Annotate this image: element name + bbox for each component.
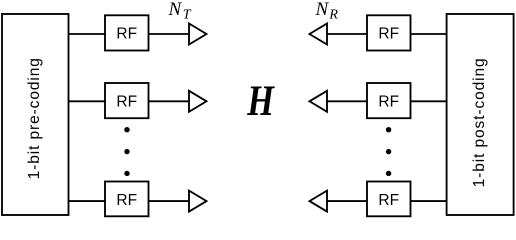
svg-text:H: H (246, 77, 275, 124)
wire RF to postcoder row1 (411, 33, 448, 35)
1-bit post-coding block (447, 14, 514, 215)
svg-text:1-bit post-coding: 1-bit post-coding (471, 57, 488, 187)
wire RF1 to TX antenna 1 (149, 33, 190, 35)
svg-text:RF: RF (378, 26, 399, 43)
RF chain box RX2 (367, 83, 411, 118)
svg-text:RF: RF (378, 93, 399, 110)
TX antenna 2 (189, 91, 207, 112)
RF chain box RX3 (367, 182, 411, 217)
wire precoder to RF1 (68, 33, 106, 35)
TX antenna 1 (189, 24, 207, 45)
wire RX antenna 2 to RF (327, 100, 368, 102)
RF chain box TX2 (105, 83, 149, 118)
RX antenna 3 (310, 191, 328, 212)
RX ellipsis dots (386, 127, 391, 176)
RF chain box TX3 (105, 182, 149, 217)
wire RF3 to TX antenna 3 (149, 200, 190, 202)
RF chain box RX1 (367, 15, 411, 50)
1-bit pre-coding block (2, 14, 69, 215)
wire RF to postcoder row2 (411, 100, 448, 102)
TX ellipsis dots (124, 127, 129, 176)
wire RX antenna 3 to RF (327, 200, 368, 202)
svg-text:RF: RF (116, 93, 137, 110)
svg-text:RF: RF (116, 26, 137, 43)
TX antenna 3 (189, 191, 207, 212)
RF chain box TX1 (105, 15, 149, 50)
RX antenna 2 (310, 91, 328, 112)
wire RF2 to TX antenna 2 (149, 100, 190, 102)
channel matrix H (246, 77, 275, 124)
svg-text:RF: RF (116, 192, 137, 209)
wire RF to postcoder row3 (411, 200, 448, 202)
wire precoder to RF3 (68, 200, 106, 202)
RX antenna 1 (310, 24, 328, 45)
svg-text:RF: RF (378, 192, 399, 209)
wire RX antenna 1 to RF (327, 33, 368, 35)
svg-text:1-bit pre-coding: 1-bit pre-coding (26, 57, 43, 179)
wire precoder to RF2 (68, 100, 106, 102)
